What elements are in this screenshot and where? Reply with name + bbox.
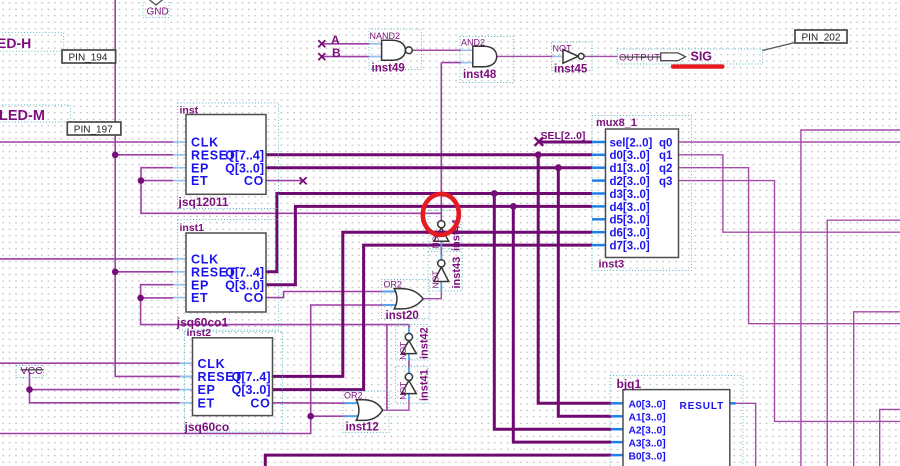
junction d1/A1 (555, 164, 562, 171)
selection box OR2 inst20 (382, 280, 430, 319)
wire node A into NAND2 (322, 43, 370, 45)
wire NOT inst44 output up to AND2 lower input (440, 63, 442, 221)
svg-text:q2: q2 (659, 163, 672, 175)
svg-text:d1[3..0]: d1[3..0] (610, 163, 650, 175)
pin location box PIN_197 (67, 122, 121, 135)
svg-text:B: B (332, 46, 341, 60)
svg-text:PIN_202: PIN_202 (802, 32, 841, 43)
wire NOT inst45 output to OUTPUT pin SIG (584, 55, 618, 57)
svg-text:Q[7..4]: Q[7..4] (232, 370, 271, 384)
svg-text:jsq12011: jsq12011 (178, 195, 229, 209)
svg-text:EP: EP (191, 161, 209, 175)
junction RESET/jsq60co1 (112, 269, 119, 276)
wire RESET tap to jsq60co1 (115, 271, 173, 273)
svg-text:NOT: NOT (553, 44, 573, 54)
wire CO of jsq60co1 to OR2 inst20 input (266, 292, 395, 298)
bus Q[3..0] jsq12011 to mux d1 (266, 166, 592, 169)
annotation red circle (marks junction error at inst44) (421, 193, 460, 236)
svg-text:SIG: SIG (691, 50, 713, 64)
bus tap d0 to bjq1 A0 (538, 155, 611, 403)
wire branch down to OR2 inst12 output (shorted net annotation) (386, 325, 388, 411)
svg-text:inst45: inst45 (554, 64, 588, 76)
selection box OR2 inst12 (343, 391, 389, 433)
wire EP tap jsq60co (30, 389, 180, 391)
svg-text:inst48: inst48 (463, 69, 497, 81)
svg-text:A1[3..0]: A1[3..0] (629, 413, 666, 424)
selection box VCC (16, 366, 44, 378)
svg-text:A3[3..0]: A3[3..0] (629, 438, 666, 449)
annotation red underline under SIG (671, 64, 725, 68)
wire node B into NAND2 (322, 56, 370, 58)
svg-text:CO: CO (244, 174, 264, 188)
svg-text:EP: EP (191, 278, 209, 292)
svg-text:inst12: inst12 (346, 422, 379, 434)
wire OR2 inst20 output to NOT inst43 input (423, 288, 441, 299)
svg-text:CO: CO (250, 396, 270, 410)
junction EP jsq60co (26, 386, 33, 393)
svg-text:d2[3..0]: d2[3..0] (610, 176, 650, 188)
svg-text:VCC: VCC (21, 365, 44, 377)
wire CLK of jsq60co from left edge (0, 362, 180, 364)
block jsq60co1 (inst1) (173, 222, 266, 330)
svg-text:inst20: inst20 (386, 310, 419, 322)
selection box bjq1 (610, 376, 743, 466)
not gate NOT inst43 (vertical, output up) (430, 255, 463, 291)
node x dangling A (318, 40, 325, 47)
wire net from right edge down (1) (801, 130, 900, 466)
svg-text:NOT: NOT (430, 271, 440, 289)
selection box NAND2 inst49 (369, 29, 422, 69)
selection box NOT inst44 (428, 211, 461, 250)
wire CLK of jsq12011 from left edge (0, 141, 173, 143)
svg-text:d6[3..0]: d6[3..0] (610, 228, 650, 240)
svg-text:Q[7..4]: Q[7..4] (225, 148, 264, 162)
selection box NOT inst45 (552, 42, 593, 71)
selection box jsq60co1 (178, 220, 279, 331)
not gate NOT inst45 (553, 44, 588, 76)
selection box AND2 inst48 (460, 37, 513, 83)
svg-text:Q[7..4]: Q[7..4] (225, 265, 264, 279)
svg-text:d4[3..0]: d4[3..0] (610, 202, 650, 214)
block mux8_1 (inst3) (592, 117, 679, 271)
junction ET jsq12011 (138, 177, 145, 184)
block jsq60co (inst2) (180, 327, 273, 434)
svg-text:GND: GND (147, 7, 169, 18)
power VCC symbol (21, 365, 44, 377)
bus tap d4 to bjq1 A3 (513, 206, 611, 442)
bus Q[7..4] jsq60co1 to mux d3 (266, 194, 592, 272)
wire mux q1 output routed right (679, 155, 900, 232)
svg-text:jsq60co: jsq60co (184, 420, 230, 434)
svg-text:RESULT: RESULT (680, 401, 725, 412)
bus SEL[2..0] into mux sel input (539, 141, 592, 144)
svg-text:inst43: inst43 (451, 257, 463, 289)
svg-text:NAND2: NAND2 (370, 31, 401, 41)
svg-text:PIN_194: PIN_194 (69, 52, 108, 63)
wire tap to OR2 inst12 lower input (311, 415, 357, 417)
svg-text:inst1: inst1 (180, 222, 205, 234)
bus tap d3 to bjq1 A2 (494, 194, 611, 430)
selection box NOT inst42 (396, 325, 429, 361)
wire ET tap jsq12011 (141, 180, 173, 182)
pin location box PIN_202 with leader line (763, 30, 848, 51)
wire net from right edge down (3) (854, 312, 900, 466)
svg-text:CO: CO (244, 291, 264, 305)
or gate OR2 inst20 (382, 280, 423, 323)
svg-text:inst42: inst42 (418, 327, 430, 359)
wire mux q2 output routed right (679, 168, 900, 324)
svg-text:B0[3..0]: B0[3..0] (629, 451, 666, 462)
wire CO of jsq60co to OR2 inst12 upper input (273, 402, 357, 404)
svg-text:inst2: inst2 (187, 327, 212, 339)
svg-text:ET: ET (191, 291, 208, 305)
wire mux q3 output routed right (679, 181, 900, 422)
bus Q[7..4] jsq12011 to mux d0 (266, 153, 592, 156)
wire net from right edge down (2) (827, 220, 900, 466)
svg-text:sel[2..0]: sel[2..0] (610, 137, 653, 149)
wire RESET tap to jsq12011 (115, 154, 173, 156)
svg-text:PIN_197: PIN_197 (74, 124, 113, 135)
not gate NOT inst42 (vertical, output up) (398, 327, 431, 360)
bus d6 segment over inst44 (425, 231, 472, 234)
selection box GND symbol (143, 0, 169, 18)
bus B0 of bjq1 from bottom edge (265, 455, 611, 466)
block bjq1 (611, 377, 736, 466)
junction ET jsq60co1 (137, 295, 144, 302)
svg-text:OR2: OR2 (344, 391, 363, 401)
svg-text:LED-H: LED-H (0, 35, 31, 51)
or gate OR2 inst12 (344, 391, 383, 434)
wire OR2 inst12 output to NOT inst41 input (383, 398, 409, 410)
selection box NOT inst43 (428, 252, 462, 292)
node x dangling B (318, 53, 325, 60)
selection box mux8_1 inst3 (592, 116, 692, 271)
svg-text:q0: q0 (659, 137, 672, 149)
svg-text:A: A (331, 33, 340, 47)
wire EP/ET of jsq12011 routed to inverter chain (141, 168, 441, 214)
svg-text:Q[3..0]: Q[3..0] (225, 278, 264, 292)
wire lower input of OR2 inst20 from bottom left net (0, 305, 395, 434)
bus Q[3..0] jsq60co to mux d7 (273, 245, 593, 390)
svg-text:LED-M: LED-M (0, 108, 45, 124)
svg-text:CLK: CLK (198, 357, 226, 371)
svg-text:q3: q3 (659, 176, 672, 188)
not gate NOT inst41 (vertical, output up) (398, 368, 431, 402)
wire mux q0 output to right edge (679, 141, 900, 143)
svg-text:OR2: OR2 (384, 280, 403, 290)
svg-text:A2[3..0]: A2[3..0] (629, 425, 666, 436)
selection box jsq12011 (178, 103, 279, 209)
pin location box PIN_194 (62, 50, 116, 63)
svg-text:ET: ET (191, 174, 208, 188)
svg-text:mux8_1: mux8_1 (596, 117, 637, 129)
svg-text:d0[3..0]: d0[3..0] (610, 150, 650, 162)
wire VCC to EP/ET of jsq60co (30, 372, 180, 403)
svg-text:inst41: inst41 (418, 369, 430, 401)
ground GND symbol (147, 0, 169, 18)
svg-text:inst: inst (180, 105, 199, 117)
svg-text:A0[3..0]: A0[3..0] (629, 400, 666, 411)
wire CO output of jsq12011 (dangling) (266, 180, 303, 182)
bus Q[3..0] jsq60co1 to mux d4 (266, 206, 592, 284)
svg-text:OUTPUT: OUTPUT (619, 53, 660, 64)
svg-text:inst3: inst3 (599, 259, 625, 271)
bus tap d1 to bjq1 A1 (558, 168, 611, 417)
wire RESULT output of bjq1 (736, 403, 756, 466)
junction inst12 lower input (307, 413, 314, 420)
selection box NOT inst41 (396, 367, 429, 404)
svg-text:AND2: AND2 (461, 37, 485, 47)
selection box LED-H pin (0, 32, 64, 51)
svg-text:inst49: inst49 (372, 63, 405, 75)
svg-text:bjq1: bjq1 (617, 377, 642, 391)
wire AND2 output to NOT inst45 (497, 55, 553, 57)
output pin OUTPUT SIG (619, 50, 712, 64)
selection box jsq60co (185, 332, 283, 433)
selection box OUTPUT SIG (617, 49, 763, 64)
svg-text:EP: EP (198, 383, 216, 397)
junction d3/A2 (491, 190, 498, 197)
svg-text:q1: q1 (659, 150, 673, 162)
bus Q[7..4] jsq60co to mux d6 (273, 232, 593, 376)
svg-text:d3[3..0]: d3[3..0] (610, 189, 650, 201)
svg-text:NOT: NOT (398, 382, 408, 400)
svg-text:CLK: CLK (191, 253, 219, 267)
node x dangling SEL (535, 137, 544, 146)
svg-text:Q[3..0]: Q[3..0] (232, 383, 271, 397)
selection box LED-M pin (0, 105, 70, 122)
svg-text:ET: ET (198, 396, 215, 410)
svg-text:d7[3..0]: d7[3..0] (610, 241, 650, 253)
wire NAND2 output to AND2 upper input (412, 49, 460, 51)
wire net from right edge down (4) (880, 409, 900, 466)
node x dangling CO jsq12011 (300, 177, 307, 184)
nand gate NAND2 inst49 (370, 31, 413, 75)
and gate AND2 inst48 (461, 37, 497, 81)
svg-text:Q[3..0]: Q[3..0] (225, 161, 264, 175)
svg-text:d5[3..0]: d5[3..0] (610, 215, 650, 227)
wire EP/ET of jsq60co1 routed to inst42 output (141, 285, 409, 334)
wire NOT inst43 to NOT inst44 (440, 248, 442, 260)
not gate NOT inst44 (vertical, output up) (430, 218, 462, 251)
wire AND2 lower input from inverter chain (441, 62, 461, 64)
junction d0/A0 (535, 151, 542, 158)
junction d4/A3 (510, 203, 517, 210)
junction RESET/jsq12011 (112, 152, 119, 159)
svg-text:SEL[2..0]: SEL[2..0] (541, 130, 586, 142)
wire RESET vertical net (pin to RESET inputs of all jsq blocks) (115, 0, 192, 376)
block jsq12011 (inst) (173, 105, 266, 210)
wire NOT inst41 to NOT inst42 (408, 358, 410, 374)
svg-text:NOT: NOT (398, 342, 408, 360)
wire ET tap jsq60co1 (141, 297, 174, 299)
wire CLK of jsq60co1 from left edge (0, 258, 173, 260)
